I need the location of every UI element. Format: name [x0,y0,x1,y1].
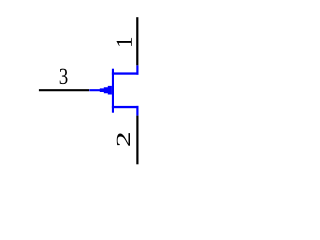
wire (source to pin 2, bottom) [136,116,138,165]
transistor J1 (P-channel JFET, blue symbol): gate pin line [89,89,100,91]
transistor J1: source pin (vertical) [136,106,138,116]
pin number 1 [117,38,132,46]
transistor J1: gate arrowhead (pointing away from channel) [100,86,112,95]
transistor J1: drain pin (vertical) [136,65,138,74]
pin number 3 [60,69,68,84]
wire (gate lead to pin 3) [39,89,89,91]
pin number 2 [117,133,130,146]
wire (drain to pin 1, top) [136,17,138,65]
transistor J1: source lead (horizontal) [112,106,139,108]
transistor J1: drain lead (horizontal) [112,72,139,74]
transistor J1: channel bar [112,69,114,113]
